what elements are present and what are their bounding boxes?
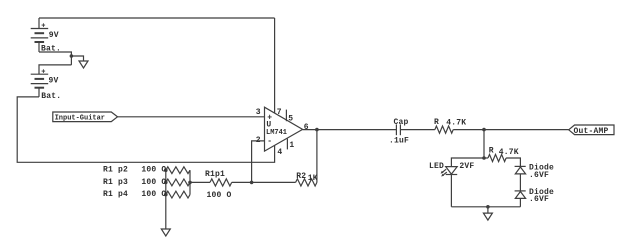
svg-text:LED: LED	[429, 162, 444, 171]
svg-text:4.7K: 4.7K	[499, 148, 519, 157]
wire V- rail: B2 negative down left side and along bottom to op-amp pin 4	[17, 97, 274, 162]
junction clipper branch node	[482, 156, 486, 160]
battery B1 9V	[31, 18, 49, 52]
svg-text:100 O: 100 O	[141, 190, 166, 199]
wire R to output junction and Out-AMP connector	[453, 129, 569, 131]
wire capacitor to resistor R	[400, 129, 435, 131]
wire branch node to LED	[451, 158, 484, 167]
diode D3 .6VF	[515, 191, 526, 199]
svg-text:4: 4	[277, 148, 282, 157]
ground symbol near batteries	[79, 61, 88, 68]
svg-text:3: 3	[256, 108, 261, 117]
wire clipper bottom rail	[451, 206, 520, 208]
wire R2 up to output node	[316, 130, 318, 183]
connector Input-Guitar	[53, 112, 118, 122]
svg-text:Bat.: Bat.	[41, 92, 61, 101]
svg-text:5: 5	[288, 114, 293, 123]
wire input to op-amp pin 3	[118, 116, 265, 118]
svg-text:R1p1: R1p1	[205, 170, 225, 179]
svg-text:+: +	[41, 68, 45, 76]
wire diode chain to bottom rail	[519, 198, 521, 206]
svg-text:R1 p4: R1 p4	[103, 190, 128, 199]
wire R lower to diode chain	[506, 158, 520, 166]
junction bottom rail ground node	[486, 205, 490, 209]
wire V+ top rail from battery B1 to op-amp pin 7	[39, 17, 275, 19]
resistor network R1 left bus with ground leg	[165, 170, 167, 229]
svg-text:R1 p2: R1 p2	[103, 166, 128, 175]
wire op-amp pin 2 to feedback node	[252, 141, 265, 183]
wire op-amp output pin 6 to capacitor	[303, 129, 397, 131]
wire LED cathode down to bottom rail	[450, 175, 452, 207]
svg-text:.6VF: .6VF	[529, 171, 549, 180]
svg-text:Out-AMP: Out-AMP	[574, 127, 609, 136]
junction R1 row p4	[164, 193, 168, 197]
svg-text:Cap: Cap	[394, 118, 409, 127]
resistor R1 p2 100 Ohm	[166, 167, 190, 174]
resistor R2 1K	[296, 179, 317, 186]
junction R1 right bus output	[188, 181, 192, 185]
wire ground stub bottom	[487, 207, 489, 213]
junction battery midpoint node	[70, 54, 74, 58]
resistor R1p1 100 Ohm	[210, 179, 232, 186]
battery B2 9V	[31, 74, 49, 97]
svg-text:Input-Guitar: Input-Guitar	[55, 115, 105, 123]
connector Out-AMP	[569, 125, 614, 135]
svg-text:2VF: 2VF	[459, 162, 474, 171]
junction clipper top node	[482, 128, 486, 132]
wire R1 bus to R1p1	[190, 181, 210, 183]
junction output node	[315, 128, 319, 132]
junction R1 row p2	[164, 168, 168, 172]
resistor R1 right bus	[189, 170, 191, 194]
resistor R1 p3 100 Ohm	[166, 179, 190, 186]
resistor R1 p4 100 Ohm	[166, 191, 190, 198]
ground symbol bottom right	[483, 213, 492, 220]
svg-text:9V: 9V	[49, 77, 59, 86]
wire B1 negative to mid junction	[39, 52, 71, 65]
pin 1 stub offset null	[286, 139, 288, 150]
svg-text:.1uF: .1uF	[389, 137, 409, 146]
LED light arrows	[441, 169, 447, 176]
resistor R 4.7K top	[435, 126, 453, 133]
svg-text:100 O: 100 O	[207, 191, 232, 200]
wire top node down to clipper branch	[483, 130, 485, 158]
wire feedback node to R2	[252, 181, 296, 183]
svg-text:100 O: 100 O	[141, 166, 166, 175]
wire R1p1 to feedback node	[232, 181, 252, 183]
op-amp U LM741 triangle	[265, 107, 303, 151]
svg-text:100 O: 100 O	[141, 178, 166, 187]
resistor R 4.7K lower	[488, 154, 506, 161]
LED D1 2VF	[446, 167, 458, 175]
wire mid junction to battery B2 plus	[39, 65, 71, 74]
wire branch node to resistor R lower	[484, 157, 488, 159]
svg-text:R1 p3: R1 p3	[103, 178, 128, 187]
wire op-amp pin 7 vertical drop	[274, 18, 276, 113]
svg-text:1: 1	[289, 141, 294, 150]
capacitor Cap .1uF	[396, 124, 400, 135]
svg-text:.6VF: .6VF	[529, 195, 549, 204]
svg-text:9V: 9V	[49, 31, 59, 40]
svg-text:-: -	[267, 137, 272, 146]
diode D2 .6VF	[515, 166, 526, 174]
svg-text:4.7K: 4.7K	[446, 119, 466, 128]
ground symbol below R1 network	[161, 229, 170, 236]
wire junction to ground stub	[71, 56, 83, 61]
wire between diodes	[519, 174, 521, 191]
node feedback junction	[250, 181, 254, 185]
svg-text:R: R	[434, 118, 439, 127]
svg-text:6: 6	[304, 123, 309, 132]
svg-text:R: R	[489, 147, 494, 156]
svg-text:7: 7	[277, 108, 282, 117]
junction R1 row p3	[164, 181, 168, 185]
svg-text:+: +	[41, 23, 45, 31]
pin 5 stub offset null	[285, 110, 287, 122]
svg-text:LM741: LM741	[266, 129, 287, 137]
svg-text:R2: R2	[296, 172, 306, 181]
